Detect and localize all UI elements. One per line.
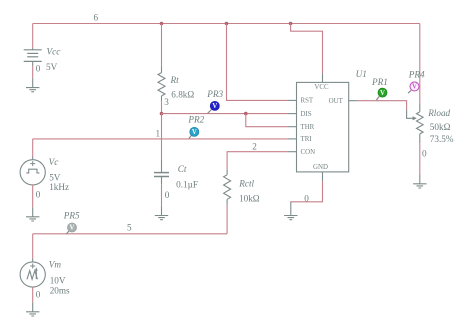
svg-text:CON: CON [301,149,316,156]
battery Vcc [24,48,42,66]
pin label THR [301,124,315,131]
svg-text:VCC: VCC [314,84,329,91]
svg-text:U1: U1 [356,69,367,79]
value 50k [430,122,451,132]
wire Rt bottom to junction [161,101,163,113]
svg-text:0: 0 [304,193,309,203]
source Vm [20,234,45,287]
svg-text:20ms: 20ms [50,285,70,295]
value 5V [46,62,58,72]
wire Vm to ground [32,287,34,302]
label Vcc [47,46,61,56]
svg-text:V: V [212,103,217,110]
value 73.5% [430,134,454,144]
wire Rt top lead [161,24,163,73]
wire GND to ground [291,181,323,202]
label PR1 [371,77,388,87]
pin RST stub [288,99,297,101]
pin THR stub [288,126,297,128]
probe PR3 [208,101,220,113]
wire to U1 VCC pin [291,24,323,74]
svg-text:Rt: Rt [170,75,180,85]
value 1kHz [49,182,69,192]
node 0 label at Ct [165,190,170,200]
svg-text:Rctl: Rctl [238,178,254,188]
wire Ct to ground [161,184,163,206]
svg-text:0: 0 [422,148,427,158]
svg-text:V: V [380,90,385,97]
value 6.8k [171,90,194,100]
wire RST branch [227,24,288,101]
svg-text:DIS: DIS [301,111,312,118]
resistor Rctl [224,170,231,205]
svg-text:GND: GND [313,164,328,171]
probe PR2 [189,127,199,138]
svg-text:PR1: PR1 [371,77,388,87]
pin label RST [301,98,314,105]
svg-text:Vm: Vm [49,260,62,270]
pin label DIS [301,111,312,118]
pin label VCC [314,84,329,91]
node 5 label [127,223,132,233]
wire THR branch [246,114,288,127]
wire Vcc top lead [32,24,34,48]
source Vc [20,139,45,185]
probe PR4 [408,82,419,93]
junction at Rt/DIS [160,112,164,116]
wire Ct branch [161,114,163,172]
svg-text:6.8kΩ: 6.8kΩ [171,90,194,100]
svg-text:OUT: OUT [329,98,344,105]
label PR2 [187,115,204,125]
svg-text:10V: 10V [50,275,66,285]
svg-text:V: V [412,84,417,91]
svg-text:V: V [192,129,197,136]
pin VCC stub [322,73,324,82]
pin label CON [301,149,316,156]
ground under Ct [155,206,168,220]
value 0.1uF [176,180,198,190]
svg-text:TRI: TRI [301,136,313,143]
svg-text:0: 0 [165,190,170,200]
wire Vcc to ground [32,66,34,78]
svg-text:0.1µF: 0.1µF [176,180,198,190]
resistor Rt [158,73,165,102]
ground under Vcc [26,78,39,92]
node 2 label [252,141,257,151]
label PR4 [408,70,425,80]
wire DIS net 3 [162,113,288,115]
pin GND stub [322,172,324,181]
wire net 1 from Vc to TRI [33,138,288,140]
ground under Vc [26,207,39,221]
junction at VCC branch [289,22,293,26]
svg-text:3: 3 [164,97,169,107]
junction at Rt top [160,22,164,26]
svg-text:PR5: PR5 [63,211,80,221]
node 1 label [156,129,161,139]
svg-text:1: 1 [156,129,161,139]
junction at RST branch [225,22,229,26]
value 10k [239,193,260,203]
svg-text:10kΩ: 10kΩ [239,193,260,203]
svg-text:PR2: PR2 [187,115,204,125]
svg-text:THR: THR [301,124,315,131]
node 0 label at Vcc [36,64,41,74]
wire net 5 horizontal [33,233,227,235]
label Rctl [238,178,254,188]
ground under Vm [26,302,39,316]
wire OUT to Rload wiper [358,101,414,119]
op-amp U1 555 timer box [297,82,349,171]
value 20ms [50,285,70,295]
svg-text:PR4: PR4 [408,70,425,80]
svg-text:PR3: PR3 [206,89,223,99]
svg-text:0: 0 [36,189,41,199]
svg-text:0: 0 [36,290,41,300]
potentiometer Rload [417,112,424,143]
value 10V [50,275,66,285]
wire Rload to ground [419,143,421,174]
pin label GND [313,164,328,171]
pin OUT stub [349,100,358,102]
label Vc [49,157,59,167]
label Vm [49,260,62,270]
wiper arrowhead [413,116,417,120]
label Rload [427,108,450,118]
junction at THR branch [244,112,248,116]
svg-text:5V: 5V [49,172,61,182]
node 0 label at Vm [36,290,41,300]
svg-text:2: 2 [252,141,257,151]
node 0 label at Rload [422,148,427,158]
node 6 label [94,12,99,22]
wire net 6 right drop to Rload [419,24,421,112]
label Rt [170,75,180,85]
node 3 label [164,97,169,107]
wire net 2 CON branch [227,152,288,170]
svg-text:50kΩ: 50kΩ [430,122,451,132]
svg-text:Vc: Vc [49,157,59,167]
pin label TRI [301,136,313,143]
capacitor Ct [154,173,169,185]
svg-text:0: 0 [36,64,41,74]
svg-text:73.5%: 73.5% [430,134,454,144]
svg-text:5V: 5V [46,62,58,72]
svg-text:Ct: Ct [178,164,187,174]
svg-text:6: 6 [94,12,99,22]
node 0 label at U1 gnd [304,193,309,203]
pin CON stub [288,151,297,153]
node 0 label at Vc [36,189,41,199]
svg-text:RST: RST [301,98,314,105]
label Ct [178,164,187,174]
probe PR1 [376,88,387,100]
label PR3 [206,89,223,99]
label PR5 [63,211,80,221]
svg-text:1kHz: 1kHz [49,182,69,192]
svg-text:V: V [70,225,75,232]
probe PR5 [66,223,76,234]
pin TRI stub [288,138,297,140]
wire Vc to ground [32,185,34,208]
wire net 6 top horizontal [33,23,420,25]
ground under U1 [284,202,297,220]
label U1 [356,69,367,79]
svg-text:5: 5 [127,223,132,233]
ground under Rload [413,175,426,189]
svg-text:Rload: Rload [427,108,450,118]
wire Rctl bottom to net 5 [226,205,228,234]
pin DIS stub [288,113,297,115]
pin label OUT [329,98,344,105]
svg-text:Vcc: Vcc [47,46,61,56]
value 5V [49,172,61,182]
